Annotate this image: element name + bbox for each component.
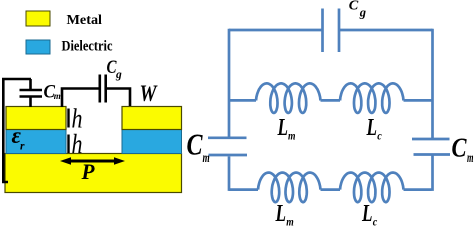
- circuit: top wire left: [229, 29, 322, 32]
- top metal patch right: [122, 107, 182, 130]
- label Lm (lower): [275, 201, 294, 229]
- circuit: lower branch wire middle: [321, 188, 341, 191]
- svg-text:c: c: [377, 128, 382, 142]
- arrow P: [60, 157, 125, 165]
- svg-text:L: L: [361, 201, 372, 227]
- circuit: capacitor Cm left plates: [208, 138, 247, 155]
- svg-text:Metal: Metal: [67, 13, 103, 28]
- wire: left patch to Cg: [62, 89, 99, 108]
- svg-text:m: m: [54, 91, 61, 101]
- svg-text:r: r: [20, 140, 25, 152]
- label epsilon_r: [12, 123, 26, 152]
- circuit: upper branch wire middle: [321, 99, 341, 102]
- svg-text:m: m: [467, 150, 474, 165]
- bottom metal slab: [5, 154, 182, 193]
- svg-text:g: g: [359, 6, 366, 20]
- svg-text:C: C: [452, 133, 468, 163]
- capacitor Cg (structure): [100, 75, 106, 103]
- circuit: capacitor Cg plates: [323, 9, 340, 53]
- circuit: lower branch wire right: [404, 188, 432, 191]
- circuit: left rail upper: [228, 29, 231, 137]
- svg-text:Dielectric: Dielectric: [62, 39, 113, 55]
- svg-text:C: C: [349, 0, 359, 14]
- capacitor Cm (structure): [20, 79, 43, 107]
- svg-text:c: c: [373, 215, 378, 229]
- wire: Cg to right patch: [106, 89, 130, 107]
- inductor Lc upper: [340, 83, 404, 113]
- svg-text:P: P: [81, 159, 95, 184]
- inductor Lm lower: [258, 173, 321, 203]
- svg-text:L: L: [275, 201, 286, 227]
- circuit: right rail lower: [431, 156, 434, 191]
- label h lower: [72, 128, 83, 159]
- svg-text:C: C: [187, 127, 203, 162]
- svg-text:m: m: [288, 128, 296, 142]
- circuit: top wire right: [340, 29, 433, 32]
- label Lc (lower): [361, 201, 378, 229]
- inductor Lm upper: [256, 83, 321, 113]
- svg-text:h: h: [72, 128, 83, 159]
- label h upper: [72, 103, 83, 134]
- circuit: upper branch wire right: [404, 99, 433, 102]
- dielectric layer left: [6, 130, 66, 154]
- legend label Dielectric: [62, 39, 113, 55]
- label Cm (circuit right): [452, 133, 474, 166]
- top metal patch left: [6, 107, 66, 130]
- svg-text:m: m: [286, 215, 294, 229]
- wire: ground loop left: [3, 79, 31, 182]
- svg-text:m: m: [203, 151, 210, 166]
- svg-text:L: L: [277, 115, 288, 141]
- h tick upper: [67, 109, 69, 128]
- label P: [81, 159, 95, 184]
- label W: [140, 81, 159, 107]
- h tick lower: [67, 135, 69, 154]
- legend label Metal: [67, 13, 103, 28]
- circuit: upper branch wire left: [229, 99, 256, 102]
- label Cg (structure): [107, 57, 123, 81]
- svg-text:W: W: [140, 81, 159, 107]
- label Cm (circuit left): [187, 127, 210, 166]
- circuit: right rail upper: [431, 29, 434, 138]
- label Cm (structure): [44, 83, 61, 103]
- inductor Lc lower: [340, 173, 404, 203]
- label Lm (upper): [277, 115, 296, 142]
- circuit: lower branch wire left: [229, 188, 258, 191]
- circuit: capacitor Cm right plates: [412, 139, 450, 155]
- svg-text:L: L: [366, 115, 377, 141]
- label Lc (upper): [366, 115, 382, 142]
- circuit: left rail lower: [228, 157, 231, 191]
- legend metal swatch: [26, 11, 50, 26]
- svg-text:g: g: [115, 69, 122, 81]
- legend dielectric swatch: [26, 40, 50, 54]
- dielectric layer right: [122, 130, 182, 154]
- label Cg (circuit): [349, 0, 366, 20]
